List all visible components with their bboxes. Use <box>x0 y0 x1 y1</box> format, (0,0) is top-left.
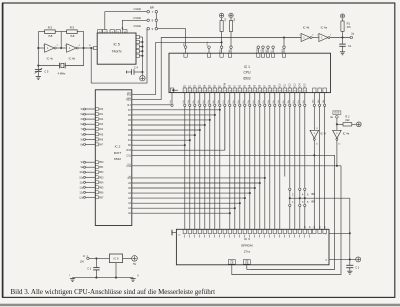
svg-text:31: 31 <box>294 91 296 93</box>
CPU bottom pin row (boxes, stubs, connector circles) <box>183 82 306 106</box>
RIOT pin phi2 from CPU <box>127 104 171 107</box>
svg-text:A12: A12 <box>289 83 292 88</box>
EPROM pin 1 wire to +5V column <box>325 198 351 259</box>
resistor R1 47k pullup <box>340 14 351 38</box>
connector 2a <box>350 31 355 38</box>
svg-text:R 5: R 5 <box>48 26 53 30</box>
op-amp IC6 regulator box <box>109 254 122 263</box>
svg-text:29c: 29c <box>293 100 295 103</box>
ground below C1 <box>340 46 345 55</box>
connector BR clock select <box>147 5 158 31</box>
svg-text:10: 10 <box>189 91 191 93</box>
jumper block BR (EPROM select) <box>289 188 316 229</box>
capacitor C1 <box>339 38 352 49</box>
svg-text:S.O.: S.O. <box>261 49 263 53</box>
phi2 arrow inside CPU <box>172 89 178 91</box>
CPU pin phi0 (clock in) <box>183 42 188 57</box>
svg-text:25: 25 <box>264 91 266 93</box>
CPU pins SYNC S.O. RDY phi1 phi2 <box>256 46 274 57</box>
inverter IC4e <box>333 130 350 166</box>
svg-text:18c: 18c <box>213 100 215 103</box>
svg-text:PA4: PA4 <box>99 128 104 131</box>
svg-text:1 MHz: 1 MHz <box>133 7 141 11</box>
wire oscillator input rail <box>37 32 44 67</box>
svg-text:26: 26 <box>269 91 271 93</box>
svg-text:R 5: R 5 <box>70 26 75 30</box>
svg-text:C 3: C 3 <box>87 267 92 270</box>
svg-text:7k8: 7k8 <box>70 34 75 38</box>
svg-text:23: 23 <box>254 91 256 93</box>
svg-text:PA7: PA7 <box>99 143 104 146</box>
wire U= to IC6 <box>89 257 109 259</box>
svg-text:PB2: PB2 <box>99 172 104 174</box>
svg-text:IRQ: IRQ <box>220 49 222 53</box>
svg-text:27xx: 27xx <box>244 250 251 254</box>
svg-text:5V: 5V <box>133 263 136 266</box>
svg-text:PB0: PB0 <box>99 162 104 164</box>
+5V supply circle below C4 <box>140 72 145 81</box>
wire IC4a output node <box>330 36 350 38</box>
svg-text:PB7: PB7 <box>99 197 104 199</box>
svg-text:BR: BR <box>150 5 154 9</box>
+5V output circle <box>132 256 138 267</box>
svg-text:CS1: CS1 <box>126 154 131 157</box>
svg-text:4 MHz: 4 MHz <box>133 24 141 28</box>
ground symbol right end of rail <box>130 273 139 281</box>
svg-text:IC 1: IC 1 <box>244 65 250 69</box>
svg-text:R1: R1 <box>347 22 351 26</box>
wire 2MHz from IC5 pin to BR <box>122 16 147 30</box>
svg-text:C 2: C 2 <box>355 266 360 269</box>
svg-text:30: 30 <box>289 91 291 93</box>
svg-text:NMI: NMI <box>229 49 231 53</box>
svg-text:R/W: R/W <box>126 149 131 152</box>
svg-text:PA0: PA0 <box>99 108 104 111</box>
svg-text:SYNC: SYNC <box>256 47 258 53</box>
svg-text:19: 19 <box>234 91 236 93</box>
capacitor C2 <box>346 259 360 269</box>
svg-text:16c: 16c <box>233 100 235 103</box>
ground below C5 <box>36 72 41 80</box>
crystal Q1 4MHz <box>38 48 83 76</box>
svg-text:PB6: PB6 <box>99 192 104 194</box>
capacitor C3 <box>87 258 99 277</box>
wire oscillator output node <box>78 45 93 49</box>
svg-text:27: 27 <box>274 91 276 93</box>
svg-text:PB3: PB3 <box>99 177 104 179</box>
svg-text:31c: 31c <box>273 100 275 103</box>
svg-text:17: 17 <box>224 91 226 93</box>
RIOT port B pins PB0-PB7 with connector stubs <box>79 161 104 200</box>
RIOT pins RS, A6-A0 wires to address bus <box>128 176 266 215</box>
svg-text:C 5: C 5 <box>44 70 49 74</box>
svg-text:IC 4d: IC 4d <box>69 57 76 61</box>
svg-text:PA6: PA6 <box>99 138 104 141</box>
svg-text:2 MHz: 2 MHz <box>133 16 141 20</box>
svg-text:14c: 14c <box>253 100 255 103</box>
EPROM pin 24 wire to +5V <box>325 258 356 261</box>
svg-text:IC 4a: IC 4a <box>321 26 328 30</box>
svg-text:9: 9 <box>184 91 185 93</box>
resistor R5 (first feedback) <box>38 26 61 48</box>
wire data bus lines D0-D7 vertical <box>185 107 220 230</box>
svg-text:47k: 47k <box>347 25 352 29</box>
svg-text:PB4: PB4 <box>99 182 104 184</box>
svg-text:16: 16 <box>219 91 221 93</box>
capacitor C5 (trimmer) <box>35 66 49 74</box>
svg-text:EPROM: EPROM <box>241 243 253 247</box>
svg-text:C 4: C 4 <box>134 65 139 69</box>
svg-text:21c: 21c <box>183 100 185 103</box>
svg-text:IC 4e: IC 4e <box>343 132 350 136</box>
CPU pin phi2 out (bottom left) <box>170 88 174 106</box>
op-amp IC2 RIOT 6532 box <box>95 90 132 226</box>
capacitor C4 <box>127 65 144 75</box>
wire data bus staircase dots <box>184 109 221 147</box>
svg-text:7k8: 7k8 <box>48 34 53 38</box>
svg-text:CE: CE <box>230 261 234 264</box>
svg-text:PB5: PB5 <box>99 187 104 189</box>
inverter IC4f <box>310 107 326 230</box>
svg-text:CS2: CS2 <box>126 165 131 168</box>
svg-text:A15: A15 <box>304 83 307 88</box>
svg-text:33: 33 <box>304 91 306 93</box>
svg-text:PB1: PB1 <box>99 167 104 169</box>
svg-text:IC 5: IC 5 <box>113 43 119 47</box>
RIOT pin CS1 wire to IC4f <box>126 154 334 269</box>
svg-text:11: 11 <box>194 91 196 93</box>
wire RES rail (to IC4b) <box>161 36 301 99</box>
CPU pin VSS <box>207 41 211 57</box>
page rule at very bottom <box>0 304 400 307</box>
EPROM pin OE <box>243 260 250 270</box>
svg-text:½: ½ <box>137 273 139 277</box>
inverter IC4d <box>65 44 81 61</box>
svg-text:IC 6: IC 6 <box>113 257 119 261</box>
wire selected clock to CPU phi0 <box>158 29 186 46</box>
svg-text:BR: BR <box>312 193 316 196</box>
svg-text:VSS: VSS <box>207 41 209 46</box>
wire jumper common rail to +5V column <box>290 197 350 199</box>
svg-text:17c: 17c <box>223 100 225 103</box>
inverter IC4c <box>43 44 59 61</box>
svg-text:11a: 11a <box>79 186 83 189</box>
op-amp IC3 EPROM 27xx box <box>176 229 329 264</box>
RIOT port A pins PA0-PA7 with connector stubs <box>81 108 104 147</box>
svg-text:21: 21 <box>244 91 246 93</box>
wire 1MHz from IC5 pin to BR <box>105 7 147 29</box>
resistor R5 (second feedback) <box>61 26 83 48</box>
svg-text:2k2: 2k2 <box>345 118 350 122</box>
connector 3a with DVS label <box>330 111 341 130</box>
svg-text:6532: 6532 <box>114 157 121 161</box>
svg-text:10V: 10V <box>80 261 85 264</box>
svg-text:22: 22 <box>249 91 251 93</box>
svg-text:C1: C1 <box>348 44 352 48</box>
RIOT pin R/W wire to CPU pin column <box>126 107 224 153</box>
svg-text:12: 12 <box>199 91 201 93</box>
IC5 top pins <box>98 30 127 34</box>
svg-text:PA1: PA1 <box>99 113 104 116</box>
svg-text:IC 4c: IC 4c <box>47 57 54 61</box>
wire IRQ rail <box>156 41 223 94</box>
op-amp IC1 CPU 6502 box <box>169 53 331 92</box>
wire IC4c out to IC4d in <box>56 47 66 49</box>
EPROM left ground pin 12 <box>172 230 181 237</box>
svg-text:IRQ: IRQ <box>127 94 131 97</box>
svg-text:RES: RES <box>282 48 284 53</box>
svg-text:IC 2: IC 2 <box>115 145 121 149</box>
svg-text:A13: A13 <box>294 83 297 88</box>
svg-text:IC 3: IC 3 <box>244 237 250 241</box>
svg-text:20: 20 <box>239 91 241 93</box>
inverter IC4b <box>299 26 314 42</box>
svg-text:Bild 3. Alle wichtigen CPU-Ans: Bild 3. Alle wichtigen CPU-Anschlüsse si… <box>11 288 216 296</box>
IC5 right side pins strapped <box>136 35 143 72</box>
svg-text:RIOT: RIOT <box>114 151 122 155</box>
svg-text:A14: A14 <box>299 83 302 88</box>
svg-text:RS: RS <box>128 177 132 180</box>
svg-text:A10: A10 <box>279 83 282 88</box>
svg-text:U: U <box>83 254 85 258</box>
svg-text:24: 24 <box>259 91 261 93</box>
svg-text:19c: 19c <box>203 100 205 103</box>
svg-text:15: 15 <box>214 91 216 93</box>
svg-text:74xx7x: 74xx7x <box>112 50 123 54</box>
svg-text:32: 32 <box>299 91 301 93</box>
wire address bus lines vertical <box>225 107 305 230</box>
svg-text:R 2: R 2 <box>345 114 350 118</box>
svg-text:10a: 10a <box>79 176 84 179</box>
svg-text:15c: 15c <box>243 100 245 103</box>
svg-text:12a: 12a <box>79 196 84 199</box>
svg-text:RES: RES <box>126 99 131 102</box>
wire 4MHz feed down-right to BR field <box>91 29 147 83</box>
svg-text:14: 14 <box>209 91 211 93</box>
+5V circle at EPROM <box>356 257 361 262</box>
svg-text:OE: OE <box>245 261 249 264</box>
connector U= input <box>80 254 89 263</box>
wire lines from CPU extra pins down <box>320 107 325 230</box>
resistor R7 NMI pullup <box>228 13 236 57</box>
svg-text:6502: 6502 <box>243 76 251 80</box>
svg-text:PA2: PA2 <box>99 118 104 121</box>
caption text Bild 3 <box>11 288 216 296</box>
svg-text:Φ 2: Φ 2 <box>127 104 132 107</box>
svg-text:RDY: RDY <box>266 48 268 53</box>
ground below C2 <box>347 268 352 275</box>
resistor R6 IRQ pullup <box>219 13 226 57</box>
ground symbol left of rail <box>69 275 75 281</box>
svg-text:PA5: PA5 <box>99 133 104 136</box>
RIOT data pins D7-D0 wires <box>128 109 220 147</box>
svg-text:20c: 20c <box>193 100 195 103</box>
svg-text:29: 29 <box>284 91 286 93</box>
+5V circle at R2 <box>356 122 361 127</box>
resistor R2 2k2 <box>337 114 356 126</box>
RIOT pin RES to rail <box>126 98 161 102</box>
svg-text:13c: 13c <box>263 100 265 103</box>
svg-text:CPU: CPU <box>244 71 252 75</box>
CPU extra pins right (to IC4f / EPROM) <box>312 88 327 106</box>
svg-text:4 MHz: 4 MHz <box>58 72 66 76</box>
label 4MHz at BR <box>133 24 141 28</box>
svg-text:28: 28 <box>279 91 281 93</box>
svg-text:28c: 28c <box>303 100 305 103</box>
RIOT pin IRQ to rail <box>127 93 156 97</box>
svg-text:IC 4b: IC 4b <box>303 26 310 30</box>
RIOT pin CS2 wire to IC4e and EPROM CE <box>126 164 341 274</box>
EPROM top pin boxes <box>183 225 326 237</box>
wire ground rail of regulator <box>73 263 134 279</box>
svg-text:PA3: PA3 <box>99 123 104 126</box>
op-amp IC5 74xx7x divider box <box>97 33 136 64</box>
svg-text:13: 13 <box>204 91 206 93</box>
wire IC6 output to +5V <box>123 257 132 259</box>
svg-text:30c: 30c <box>283 100 285 103</box>
svg-text:18: 18 <box>229 91 231 93</box>
IC5 clock input pin 10 <box>93 46 97 49</box>
svg-text:BR: BR <box>312 201 316 204</box>
CPU pin RES from rail <box>282 38 286 58</box>
svg-text:DVS: DVS <box>335 113 340 115</box>
EPROM pin CE <box>228 260 235 265</box>
inverter IC4a <box>312 26 332 42</box>
svg-text:IC 4f: IC 4f <box>320 132 326 136</box>
